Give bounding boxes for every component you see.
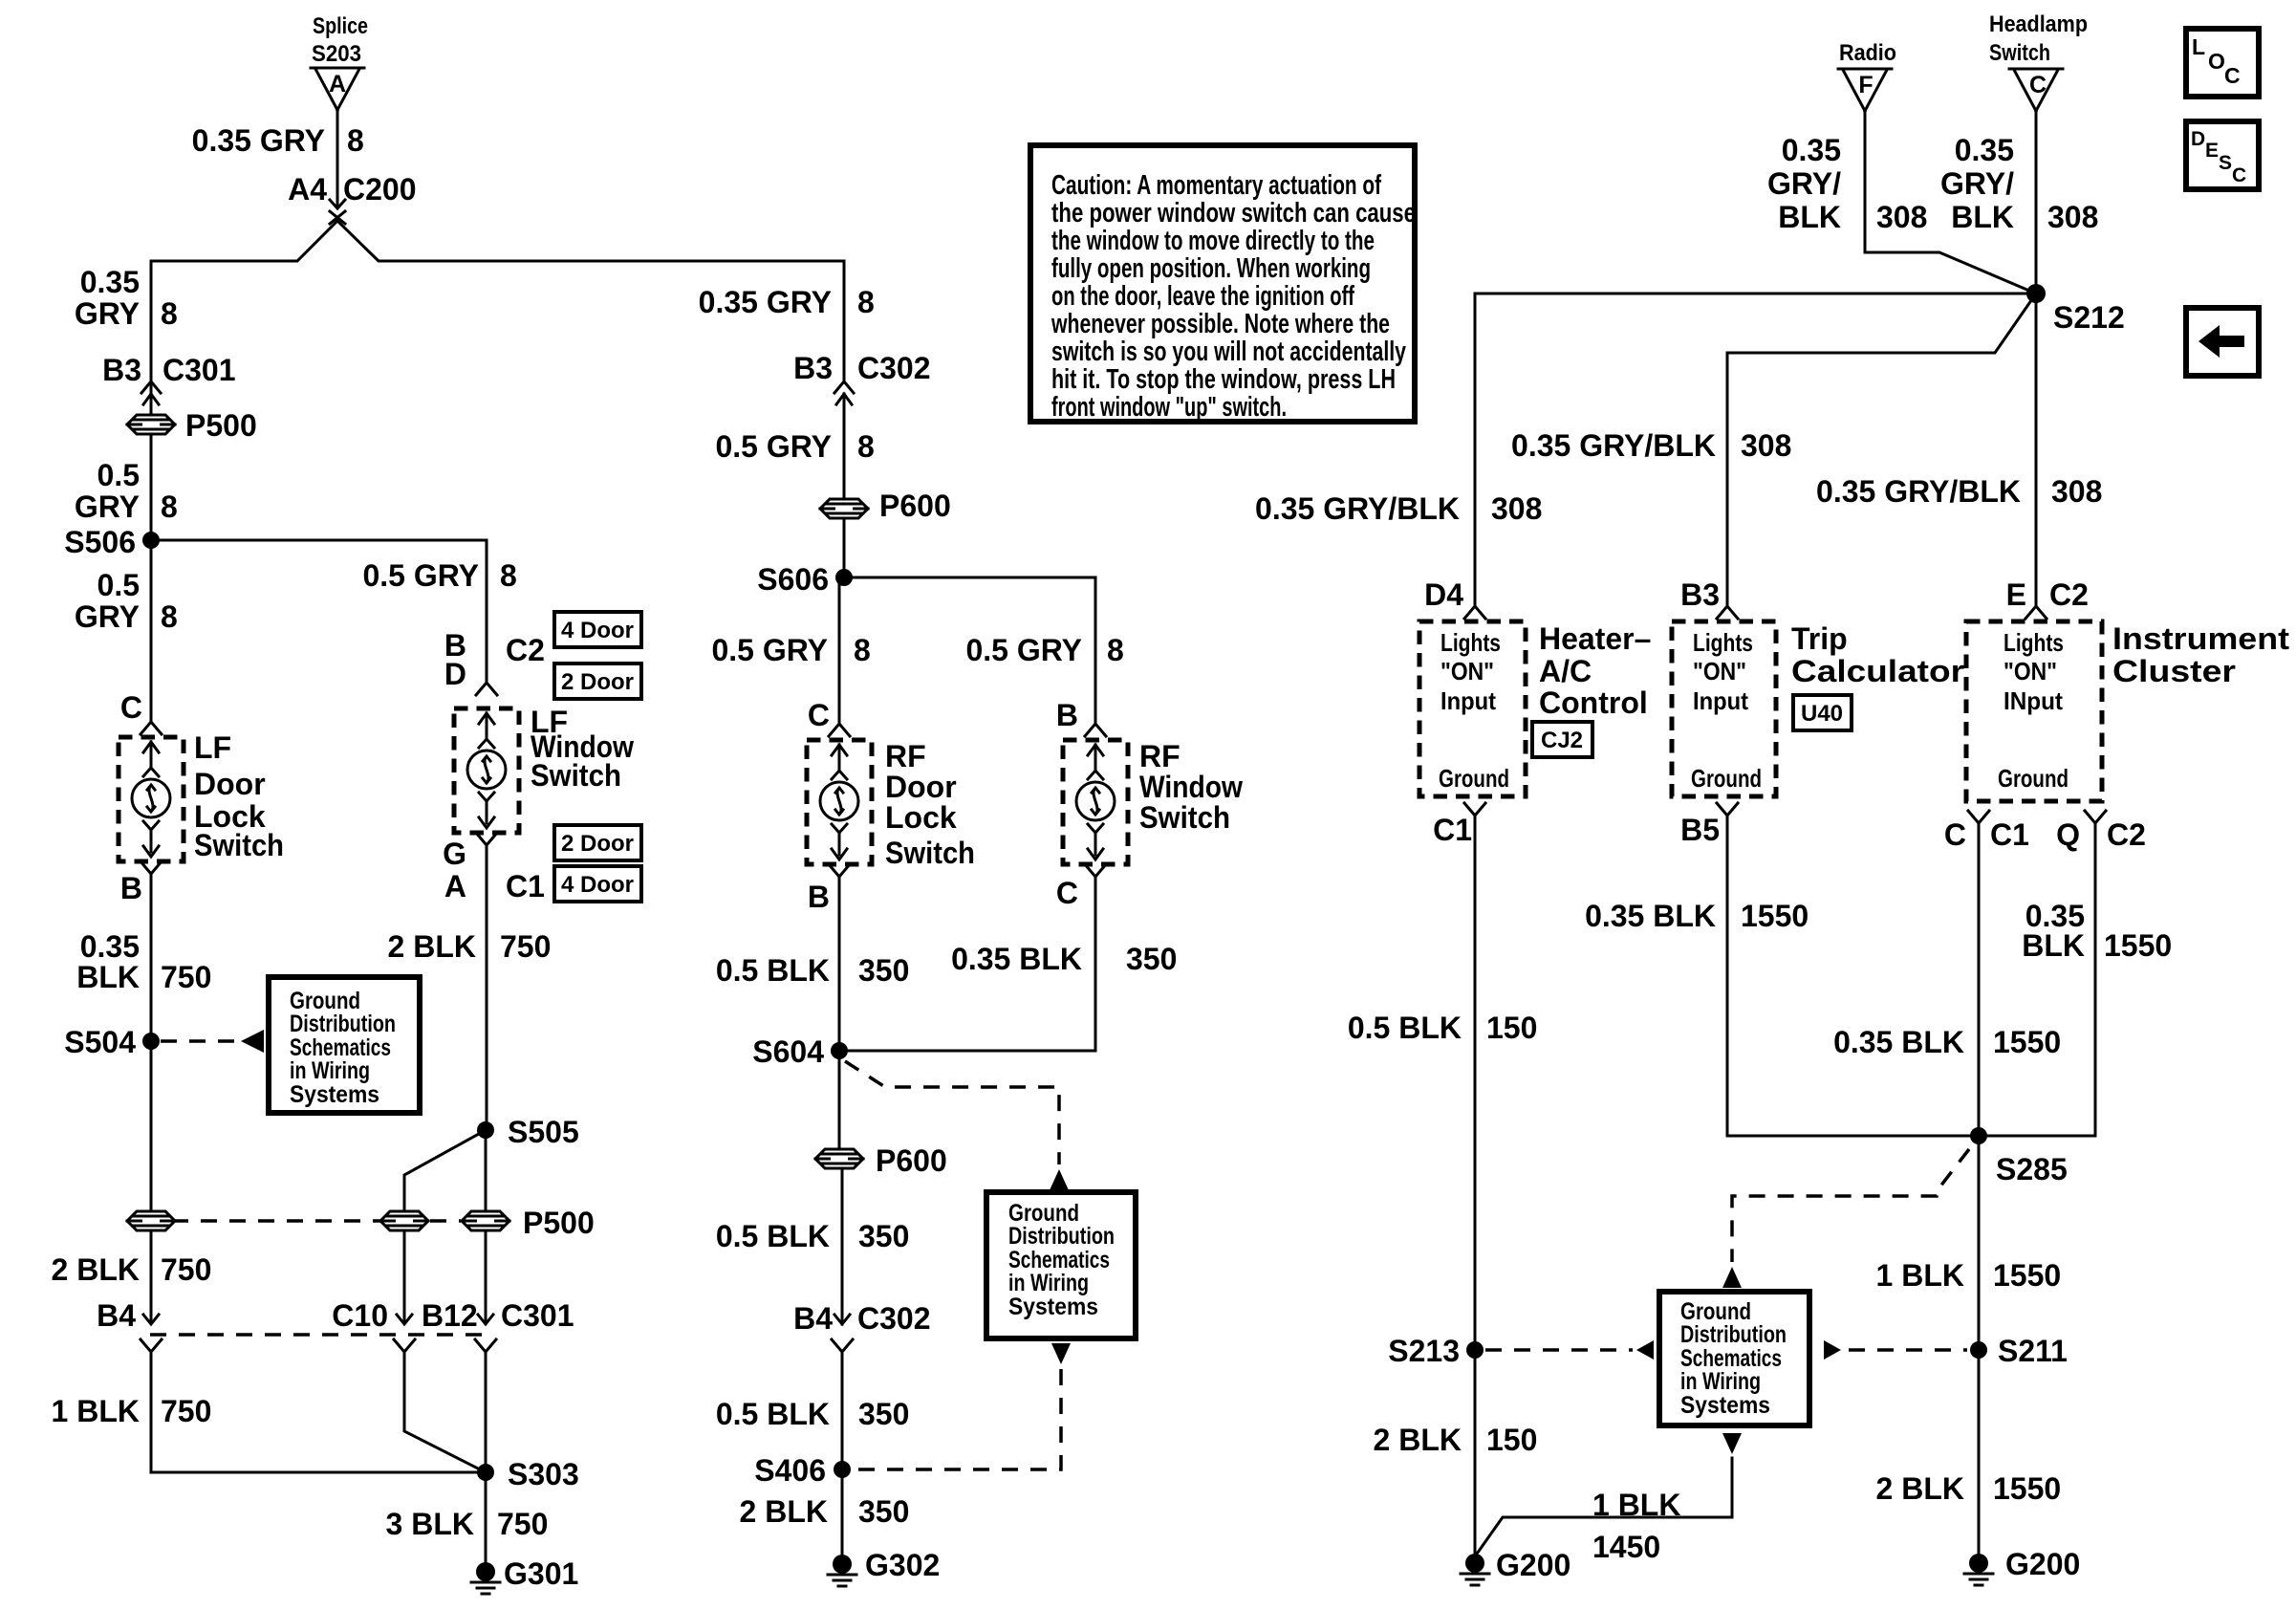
svg-text:0.5 BLK: 0.5 BLK <box>716 1219 830 1253</box>
svg-text:Caution: A momentary actuation: Caution: A momentary actuation of <box>1051 170 1381 201</box>
reference arrow up middle <box>1050 1169 1069 1190</box>
pass-through grommet P500 right <box>462 1206 595 1240</box>
reference arrow down middle <box>1051 1343 1071 1364</box>
svg-text:8: 8 <box>500 558 517 593</box>
svg-text:Ground: Ground <box>1998 764 2069 793</box>
connector C302 pin B4 <box>793 1301 930 1352</box>
svg-text:RF: RF <box>885 739 926 773</box>
label 1 BLK 1550 <box>1876 1258 2062 1293</box>
wire P500 to connector B4 <box>150 1230 153 1323</box>
ground distribution reference box right <box>1659 1292 1809 1425</box>
svg-text:1550: 1550 <box>1993 1025 2061 1059</box>
wire S505 diagonal to inner branch <box>404 1130 486 1230</box>
svg-text:350: 350 <box>858 953 909 988</box>
svg-text:S504: S504 <box>64 1025 136 1059</box>
svg-text:1550: 1550 <box>1993 1258 2061 1293</box>
svg-text:B: B <box>1056 698 1078 732</box>
svg-text:308: 308 <box>1491 491 1542 526</box>
svg-text:G301: G301 <box>504 1556 578 1591</box>
svg-text:Radio: Radio <box>1839 40 1896 66</box>
caution note box <box>1030 145 1416 423</box>
svg-text:0.35 GRY: 0.35 GRY <box>699 285 832 319</box>
svg-text:C2: C2 <box>2049 577 2089 612</box>
svg-text:B3: B3 <box>793 351 833 385</box>
svg-text:0.35 BLK: 0.35 BLK <box>1833 1025 1964 1059</box>
wire P600 to S606 <box>843 518 846 577</box>
label 0.35 GRY/BLK 308 heater wire <box>1255 491 1542 526</box>
wire S212 to trip calculator pin B3 <box>1727 294 2036 605</box>
svg-text:0.35: 0.35 <box>1782 133 1841 167</box>
RF window switch <box>1063 739 1243 864</box>
svg-text:C: C <box>1944 817 1966 852</box>
svg-text:0.35 GRY: 0.35 GRY <box>192 123 325 158</box>
svg-text:S604: S604 <box>752 1034 824 1069</box>
pin B5 of trip calculator <box>1680 803 1738 847</box>
svg-text:F: F <box>1858 72 1873 98</box>
label 0.35 GRY/BLK 308 cluster wire <box>1816 474 2102 509</box>
wire 1 BLK 1450 from G200 left to ground distribution box <box>1475 1458 1732 1556</box>
svg-text:GRY: GRY <box>75 490 140 524</box>
svg-text:Switch: Switch <box>885 836 975 870</box>
svg-text:Systems: Systems <box>1680 1392 1770 1419</box>
svg-text:in Wiring: in Wiring <box>1008 1270 1089 1296</box>
svg-text:C1: C1 <box>1990 817 2029 852</box>
dashed reference box to S211 <box>1849 1348 1967 1352</box>
svg-text:308: 308 <box>2047 200 2098 234</box>
svg-text:0.35: 0.35 <box>80 929 140 964</box>
svg-text:S212: S212 <box>2053 300 2125 335</box>
LF door lock switch <box>119 730 284 862</box>
svg-text:S203: S203 <box>312 41 361 67</box>
svg-text:in Wiring: in Wiring <box>290 1057 370 1084</box>
svg-text:A4: A4 <box>288 172 327 207</box>
dashed reference from S285 <box>1732 1149 1969 1262</box>
svg-text:0.35 BLK: 0.35 BLK <box>1585 899 1716 933</box>
dashed reference S213 to box <box>1485 1348 1633 1352</box>
svg-text:1 BLK: 1 BLK <box>1592 1488 1680 1522</box>
label 0.5 BLK 350 <box>716 1397 910 1431</box>
svg-text:GRY/: GRY/ <box>1767 166 1841 201</box>
pass-through grommet P500 middle <box>380 1211 428 1230</box>
svg-text:Cluster: Cluster <box>2112 654 2236 688</box>
label 3 BLK 750 <box>386 1507 549 1541</box>
svg-text:C301: C301 <box>162 353 236 387</box>
label 0.35 BLK 1550 trip wire <box>1585 899 1809 933</box>
wire S506 down to LF door lock switch pin C <box>150 540 153 722</box>
label 0.35 GRY/BLK 308 radio wire <box>1767 133 1927 234</box>
svg-text:GRY: GRY <box>75 599 140 634</box>
LOC legend box <box>2186 29 2259 97</box>
svg-text:8: 8 <box>347 123 364 158</box>
svg-text:C: C <box>1056 876 1078 910</box>
svg-text:0.35 GRY/BLK: 0.35 GRY/BLK <box>1511 428 1716 463</box>
pin chevron below LF window switch <box>476 833 497 845</box>
wire S504 to P500 <box>150 1041 153 1230</box>
svg-text:switch is so you will not acci: switch is so you will not accidentally <box>1051 337 1406 367</box>
svg-text:350: 350 <box>858 1219 909 1253</box>
svg-text:whenever possible. Note where: whenever possible. Note where the <box>1051 309 1390 339</box>
svg-text:P500: P500 <box>523 1206 595 1240</box>
label 1 BLK 1450 <box>1592 1488 1680 1564</box>
label 0.5 BLK 150 <box>1348 1011 1538 1045</box>
svg-text:in Wiring: in Wiring <box>1680 1368 1761 1395</box>
svg-text:Q: Q <box>2056 817 2080 852</box>
svg-text:2 BLK: 2 BLK <box>52 1252 140 1287</box>
pin C of RF window switch <box>1056 864 1106 910</box>
svg-text:A: A <box>329 71 346 98</box>
svg-text:C: C <box>2224 63 2241 88</box>
wire radio F to S212 <box>1865 111 2036 294</box>
ground G200 right <box>1964 1547 2080 1585</box>
svg-text:8: 8 <box>161 599 178 634</box>
svg-text:0.5 BLK: 0.5 BLK <box>1348 1011 1462 1045</box>
wire B3 to P500 <box>150 394 153 453</box>
svg-text:C301: C301 <box>501 1298 574 1333</box>
reference arrow up right <box>1722 1267 1742 1288</box>
svg-text:750: 750 <box>161 1394 211 1428</box>
trip calculator block <box>1672 621 1964 796</box>
dashed connector line C301 <box>150 1333 487 1337</box>
svg-text:E: E <box>2205 140 2219 162</box>
svg-text:Systems: Systems <box>1008 1294 1098 1320</box>
connector pins C10 B12 <box>332 1298 477 1352</box>
splice S213 <box>1388 1334 1484 1368</box>
svg-text:Splice: Splice <box>313 13 368 39</box>
svg-text:"ON": "ON" <box>1440 657 1494 685</box>
label 0.5 BLK 350 <box>716 953 910 988</box>
svg-text:C: C <box>2232 164 2246 186</box>
reference arrow left toward S213 <box>1636 1340 1654 1360</box>
svg-text:150: 150 <box>1486 1423 1537 1457</box>
svg-text:Window: Window <box>1139 770 1243 804</box>
svg-text:C2: C2 <box>506 633 545 667</box>
svg-text:"ON": "ON" <box>2004 657 2057 685</box>
svg-text:0.35 BLK: 0.35 BLK <box>951 942 1082 976</box>
svg-text:1550: 1550 <box>2104 928 2172 963</box>
pin D4 of heater A/C control <box>1424 577 1485 619</box>
dashed reference from S504 <box>161 1039 239 1043</box>
svg-text:S285: S285 <box>1996 1152 2068 1186</box>
svg-text:fully open position. When work: fully open position. When working <box>1051 253 1371 284</box>
svg-text:4 Door: 4 Door <box>561 618 634 643</box>
svg-text:Door: Door <box>194 767 266 801</box>
label 2 BLK 350 <box>740 1494 910 1529</box>
svg-text:S606: S606 <box>757 562 829 597</box>
reference arrow down right box <box>1722 1433 1742 1454</box>
connector C301 <box>475 1298 574 1352</box>
pass-through grommet P500 <box>127 408 257 443</box>
svg-text:0.5: 0.5 <box>97 568 140 602</box>
wire S505 straight down <box>485 1130 487 1230</box>
svg-text:Distribution: Distribution <box>1680 1321 1787 1348</box>
svg-text:0.35 GRY/BLK: 0.35 GRY/BLK <box>1816 474 2021 509</box>
svg-text:2 BLK: 2 BLK <box>740 1494 828 1529</box>
svg-text:BLK: BLK <box>2022 928 2085 963</box>
label 0.35 GRY 8 middle branch <box>699 285 875 319</box>
dashed line through P500 row <box>172 1219 461 1223</box>
svg-text:S213: S213 <box>1388 1334 1460 1368</box>
pin C connector C1 of instrument cluster <box>1944 811 2029 852</box>
reference arrow left <box>241 1030 264 1053</box>
svg-text:hit it. To stop the window, pr: hit it. To stop the window, press LH <box>1051 364 1396 395</box>
svg-text:1550: 1550 <box>1741 899 1809 933</box>
svg-text:8: 8 <box>161 296 178 331</box>
label 0.5 BLK 350 <box>716 1219 910 1253</box>
ground distribution reference box left <box>269 977 420 1113</box>
svg-text:D4: D4 <box>1424 577 1463 612</box>
DESC legend box <box>2186 121 2259 189</box>
connector C302 pin B3 <box>793 351 930 404</box>
ground distribution reference box middle <box>986 1192 1136 1338</box>
wire LF window switch to S505 <box>486 845 488 1130</box>
wire from C200 split to middle branch <box>337 221 844 381</box>
pin B of LF door lock switch <box>120 861 162 905</box>
svg-text:0.35 GRY/BLK: 0.35 GRY/BLK <box>1255 491 1460 526</box>
svg-text:Ground: Ground <box>1691 764 1762 793</box>
svg-text:G: G <box>443 837 466 871</box>
svg-text:Input: Input <box>1440 686 1496 715</box>
connector C200 pin A4 <box>288 172 416 224</box>
svg-text:0.5 GRY: 0.5 GRY <box>715 429 832 464</box>
wire S212 to heater A/C control pin D4 <box>1475 294 2036 605</box>
svg-text:8: 8 <box>161 490 178 524</box>
label 2 BLK 750 <box>388 929 552 964</box>
svg-text:Door: Door <box>885 770 957 804</box>
svg-text:8: 8 <box>857 285 875 319</box>
svg-text:G200: G200 <box>1496 1548 1570 1582</box>
svg-text:C302: C302 <box>857 1301 931 1336</box>
svg-text:350: 350 <box>1126 942 1177 976</box>
wire trip B5 down to S285 horizontal <box>1727 816 2095 1136</box>
svg-text:GRY: GRY <box>75 296 140 331</box>
svg-text:LF: LF <box>194 730 231 765</box>
svg-text:C302: C302 <box>857 351 931 385</box>
svg-text:A: A <box>444 869 466 903</box>
svg-text:Lights: Lights <box>1440 628 1501 657</box>
svg-text:Switch: Switch <box>194 828 284 862</box>
connector pin B4 <box>97 1298 162 1352</box>
svg-text:Lock: Lock <box>885 800 957 835</box>
back arrow legend box <box>2186 308 2259 376</box>
wire B3 to P600 <box>843 394 846 499</box>
svg-text:B: B <box>120 871 142 905</box>
svg-text:0.5 GRY: 0.5 GRY <box>965 633 1082 667</box>
label 0.5 GRY 8 on window branch <box>362 558 516 593</box>
svg-text:350: 350 <box>858 1397 909 1431</box>
svg-text:B3: B3 <box>102 353 141 387</box>
svg-text:Ground: Ground <box>1439 764 1509 793</box>
svg-text:the window to move directly to: the window to move directly to the <box>1051 226 1375 256</box>
wire cluster C C1 down through S285 S211 to G200 right <box>1978 823 1981 1554</box>
svg-text:BLK: BLK <box>1951 200 2014 234</box>
label 2 BLK 750 <box>52 1252 212 1287</box>
svg-text:Headlamp: Headlamp <box>1989 11 2088 37</box>
splice reference triangle S203 <box>311 13 368 110</box>
svg-text:750: 750 <box>161 1252 211 1287</box>
svg-text:B3: B3 <box>1680 577 1720 612</box>
label 0.35 BLK 1550 cluster Q wire <box>2022 899 2172 963</box>
label 0.5 GRY 8 window <box>965 633 1123 667</box>
svg-text:U40: U40 <box>1801 701 1843 727</box>
svg-text:C10: C10 <box>332 1298 388 1333</box>
svg-text:S303: S303 <box>508 1457 579 1491</box>
pass-through grommet P600 lower <box>815 1143 947 1178</box>
svg-text:1450: 1450 <box>1592 1530 1660 1564</box>
pass-through grommet P600 <box>820 489 951 523</box>
svg-text:0.5 BLK: 0.5 BLK <box>716 953 830 988</box>
svg-text:Calculator: Calculator <box>1791 654 1964 688</box>
svg-text:C2: C2 <box>2107 817 2146 852</box>
wire middle branch to S303 <box>404 1352 486 1472</box>
wire right branch to connector <box>485 1230 487 1323</box>
svg-text:0.5 GRY: 0.5 GRY <box>362 558 479 593</box>
svg-text:8: 8 <box>1107 633 1124 667</box>
splice S506 <box>64 525 160 559</box>
svg-text:G200: G200 <box>2005 1547 2080 1581</box>
svg-text:Trip: Trip <box>1791 621 1848 656</box>
svg-text:3 BLK: 3 BLK <box>386 1507 474 1541</box>
svg-text:S506: S506 <box>64 525 136 559</box>
svg-text:Instrument: Instrument <box>2112 621 2289 656</box>
wire B4 to S303 corner <box>151 1352 486 1472</box>
svg-text:308: 308 <box>1741 428 1791 463</box>
svg-text:0.35: 0.35 <box>80 265 140 299</box>
svg-text:front window "up" switch.: front window "up" switch. <box>1051 392 1287 423</box>
svg-text:C1: C1 <box>506 869 545 903</box>
label 1 BLK 750 <box>52 1394 212 1428</box>
svg-text:150: 150 <box>1486 1011 1537 1045</box>
RF door lock switch <box>807 739 975 870</box>
svg-text:2 BLK: 2 BLK <box>388 929 476 964</box>
wire headlamp C down through S212 to instrument cluster <box>2035 111 2038 605</box>
pin C of LF door lock switch <box>120 690 162 734</box>
svg-text:750: 750 <box>161 960 211 994</box>
wire S606 down to RF door lock switch <box>839 577 844 724</box>
connector C301 pin B3 <box>102 353 235 404</box>
svg-text:Systems: Systems <box>290 1081 379 1108</box>
wire S406 to G302 <box>841 1469 844 1555</box>
svg-text:2 BLK: 2 BLK <box>1374 1423 1462 1457</box>
heater A/C control block <box>1419 621 1651 796</box>
svg-text:L: L <box>2192 34 2205 59</box>
LF window switch <box>454 705 634 833</box>
label 0.5 GRY 8 door lock <box>711 633 870 667</box>
splice S604 <box>752 1034 848 1069</box>
splice S303 <box>477 1457 579 1491</box>
svg-text:S406: S406 <box>754 1453 826 1488</box>
wire S604 to P600 <box>838 1051 841 1149</box>
svg-text:0.35: 0.35 <box>1955 133 2014 167</box>
svg-text:C200: C200 <box>343 172 417 207</box>
label 0.35 BLK 350 <box>951 942 1177 976</box>
pin C1 of heater A/C control <box>1433 803 1485 847</box>
label 0.35 BLK 750 <box>76 929 211 994</box>
svg-text:O: O <box>2208 49 2225 74</box>
connector C2 pin E of instrument cluster <box>2006 577 2089 619</box>
headlamp switch reference triangle C <box>1989 11 2088 111</box>
svg-text:P600: P600 <box>876 1143 947 1178</box>
svg-text:8: 8 <box>857 429 875 464</box>
svg-text:0.5: 0.5 <box>97 458 140 492</box>
label 0.35 GRY/BLK 308 headlamp wire <box>1940 133 2098 234</box>
svg-text:Switch: Switch <box>1989 40 2050 66</box>
wire heater C1 to G200 left <box>1474 816 1477 1554</box>
ground G200 left <box>1461 1548 1570 1585</box>
svg-text:BLK: BLK <box>1778 200 1841 234</box>
svg-text:Input: Input <box>1693 686 1748 715</box>
wire P600 to connector B4 <box>839 1168 842 1324</box>
wire RF door lock B to S604 <box>838 877 841 1051</box>
svg-text:"ON": "ON" <box>1693 657 1746 685</box>
svg-text:B5: B5 <box>1680 813 1720 847</box>
svg-text:B12: B12 <box>422 1298 478 1333</box>
svg-text:E: E <box>2006 577 2026 612</box>
wire cluster Q C2 down to S285 horizontal <box>2094 823 2097 1136</box>
svg-text:4 Door: 4 Door <box>561 872 634 898</box>
svg-text:308: 308 <box>1876 200 1927 234</box>
svg-text:1 BLK: 1 BLK <box>52 1394 140 1428</box>
label 2 BLK 150 <box>1374 1423 1538 1457</box>
svg-text:BLK: BLK <box>76 960 140 994</box>
svg-text:1550: 1550 <box>1993 1471 2061 1506</box>
splice S505 <box>477 1115 579 1149</box>
splice S406 <box>754 1453 851 1488</box>
svg-text:308: 308 <box>2051 474 2102 509</box>
svg-text:P500: P500 <box>185 408 257 443</box>
splice S285 <box>1970 1127 2068 1186</box>
svg-text:Switch: Switch <box>531 758 621 793</box>
wire connector to S406 <box>841 1352 844 1469</box>
svg-text:0.5 GRY: 0.5 GRY <box>711 633 828 667</box>
label 2 BLK 1550 <box>1876 1471 2062 1506</box>
wire S606 right branch to RF window switch <box>844 577 1095 724</box>
svg-text:G302: G302 <box>865 1548 940 1582</box>
svg-text:B4: B4 <box>793 1301 833 1336</box>
wire RF window switch to S604 <box>839 877 1095 1051</box>
connector C1 pins G A with 2-door 4-door variants <box>443 825 641 903</box>
wire from C200 split to left branch <box>151 221 337 415</box>
svg-text:P600: P600 <box>879 489 951 523</box>
svg-text:Switch: Switch <box>1139 800 1230 835</box>
pin Q connector C2 of instrument cluster <box>2056 811 2146 852</box>
pin B3 of trip calculator <box>1680 577 1738 619</box>
wire right branch to S303 <box>485 1352 487 1472</box>
splice S606 <box>757 562 853 597</box>
label 0.5 GRY 8 on door lock branch <box>75 568 178 634</box>
wire S506 right branch to LF window switch <box>151 540 487 682</box>
svg-text:Heater–: Heater– <box>1539 621 1651 656</box>
pin C of RF door lock switch <box>808 698 850 736</box>
svg-text:750: 750 <box>497 1507 548 1541</box>
svg-text:2 Door: 2 Door <box>561 831 634 857</box>
svg-text:A/C: A/C <box>1539 654 1592 688</box>
svg-text:Control: Control <box>1539 685 1648 720</box>
svg-text:D: D <box>444 657 466 691</box>
svg-text:C: C <box>808 698 830 732</box>
connector C2 pins B D with 4-door 2-door variants <box>444 612 641 699</box>
svg-text:2 Door: 2 Door <box>561 669 634 695</box>
svg-text:INput: INput <box>2004 686 2063 715</box>
label 0.35 GRY/BLK 308 trip wire <box>1511 428 1791 463</box>
svg-text:the power window switch can ca: the power window switch can cause <box>1051 198 1416 228</box>
label 0.35 GRY 8 <box>192 123 364 158</box>
svg-text:S: S <box>2219 152 2232 174</box>
splice S212 <box>2026 284 2125 335</box>
svg-text:B4: B4 <box>97 1298 136 1333</box>
svg-text:Distribution: Distribution <box>290 1011 396 1037</box>
svg-text:0.5 BLK: 0.5 BLK <box>716 1397 830 1431</box>
wire S303 to G301 <box>485 1472 487 1562</box>
